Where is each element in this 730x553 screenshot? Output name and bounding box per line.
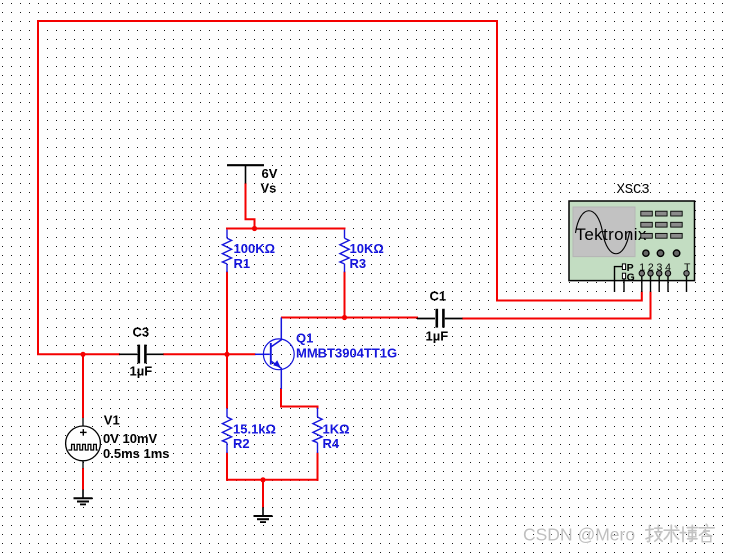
svg-text:G: G (627, 271, 635, 283)
svg-text:1µF: 1µF (426, 329, 449, 344)
wire R3 bottom to collector junction (344, 272, 346, 318)
P connector pin (622, 264, 625, 270)
resistor R1 (222, 230, 231, 273)
svg-text:0V 10mV: 0V 10mV (103, 431, 158, 446)
wire emitter to R4 (281, 388, 318, 409)
wire VCC rail R1 to R3 (226, 228, 346, 230)
resistor R4 (313, 408, 322, 453)
junction base/R1/R2/C3 (224, 352, 229, 357)
junction collector/R3/C1 (342, 315, 347, 320)
power supply Vs 6V bar (227, 165, 264, 183)
V1 pulse waveform glyph (68, 444, 98, 450)
source V1 (66, 418, 101, 469)
svg-text:Vs: Vs (261, 180, 277, 195)
ground under R2/R4 rail (254, 507, 273, 522)
wire bottom rail R2 to R4 (226, 479, 319, 481)
screen sine wave (576, 211, 630, 254)
transistor Q1 (255, 318, 294, 390)
resistor R3 (340, 230, 349, 273)
svg-text:1µF: 1µF (130, 364, 153, 379)
svg-text:MMBT3904TT1G: MMBT3904TT1G (296, 345, 397, 360)
svg-text:1KΩ: 1KΩ (323, 421, 350, 436)
svg-text:C1: C1 (430, 288, 447, 303)
wire R2 bottom (226, 453, 228, 481)
svg-text:Q1: Q1 (296, 331, 313, 346)
capacitor C1 (417, 309, 463, 328)
watermark CJK glyphs (simplified strokes) (646, 524, 714, 542)
wire R4 bottom (317, 453, 319, 481)
svg-text:V1: V1 (104, 412, 120, 427)
wire C3 left horizontal (37, 353, 120, 355)
svg-text:XSC3: XSC3 (617, 183, 650, 198)
scope body (569, 201, 695, 281)
wire V1 top (82, 354, 84, 418)
resistor R2 (222, 408, 231, 453)
wire ground drop (262, 480, 264, 508)
scope screen (573, 207, 635, 257)
scope knobs (643, 250, 680, 256)
svg-text:CSDN @Mero: CSDN @Mero (523, 525, 635, 545)
svg-text:R3: R3 (350, 256, 367, 271)
svg-text:C3: C3 (133, 324, 150, 339)
wire collector node horizontal to C1 (281, 317, 418, 319)
svg-text:R1: R1 (234, 256, 251, 271)
svg-text:R4: R4 (323, 436, 340, 451)
wire V1 bottom (82, 468, 84, 490)
junction Vs/R1/R3 (252, 226, 257, 231)
wire C3 right to base junction (163, 353, 256, 355)
svg-text:0.5ms 1ms: 0.5ms 1ms (103, 446, 170, 461)
svg-text:100KΩ: 100KΩ (234, 241, 276, 256)
pin stubs (615, 267, 687, 292)
junction V1/input (80, 352, 85, 357)
wire input loop: V1/C3 node to scope channel A (38, 21, 642, 355)
G probe wire (623, 279, 625, 292)
ground under V1 (74, 490, 93, 505)
junction ground rail (260, 477, 265, 482)
wire C1 right to scope channel B (462, 292, 651, 319)
svg-text:10KΩ: 10KΩ (350, 241, 384, 256)
P probe wire (615, 267, 623, 292)
scope input pins (639, 271, 689, 276)
svg-text:15.1kΩ: 15.1kΩ (233, 421, 276, 436)
G connector pin (622, 273, 625, 279)
svg-text:Tektronix: Tektronix (576, 225, 647, 244)
scope buttons 3x3 (641, 211, 682, 238)
capacitor C3 (119, 345, 164, 364)
wire R1 bottom to base junction to R2 top (226, 272, 228, 409)
svg-text:R2: R2 (233, 436, 250, 451)
wire Vs supply drop with jog (246, 183, 255, 229)
emitter arrow (273, 360, 281, 367)
oscilloscope XSC3 (569, 201, 695, 292)
svg-text:6V: 6V (262, 166, 278, 181)
